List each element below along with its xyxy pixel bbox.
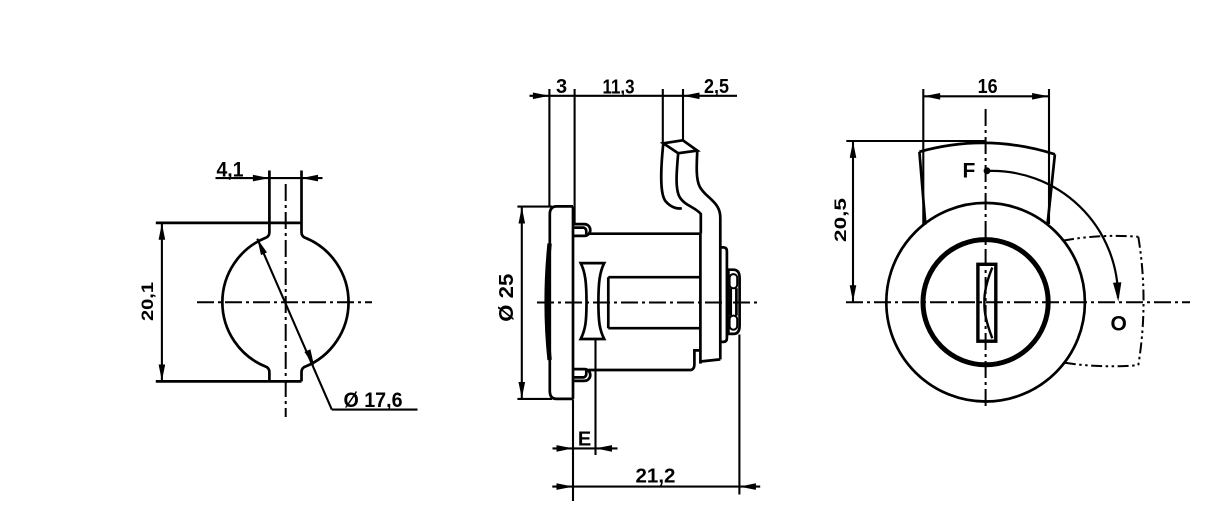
- svg-text:20,5: 20,5: [831, 198, 850, 242]
- svg-text:20,1: 20,1: [138, 282, 157, 321]
- svg-text:2,5: 2,5: [704, 76, 729, 98]
- svg-text:F: F: [963, 160, 976, 183]
- svg-text:Ø 17,6: Ø 17,6: [344, 389, 403, 412]
- svg-text:3: 3: [556, 76, 567, 98]
- svg-text:E: E: [578, 429, 591, 451]
- svg-text:21,2: 21,2: [636, 466, 676, 488]
- svg-text:O: O: [1111, 313, 1127, 336]
- svg-text:4,1: 4,1: [217, 159, 244, 182]
- svg-text:Ø 25: Ø 25: [496, 274, 518, 322]
- svg-text:16: 16: [978, 76, 998, 98]
- svg-text:11,3: 11,3: [603, 77, 635, 99]
